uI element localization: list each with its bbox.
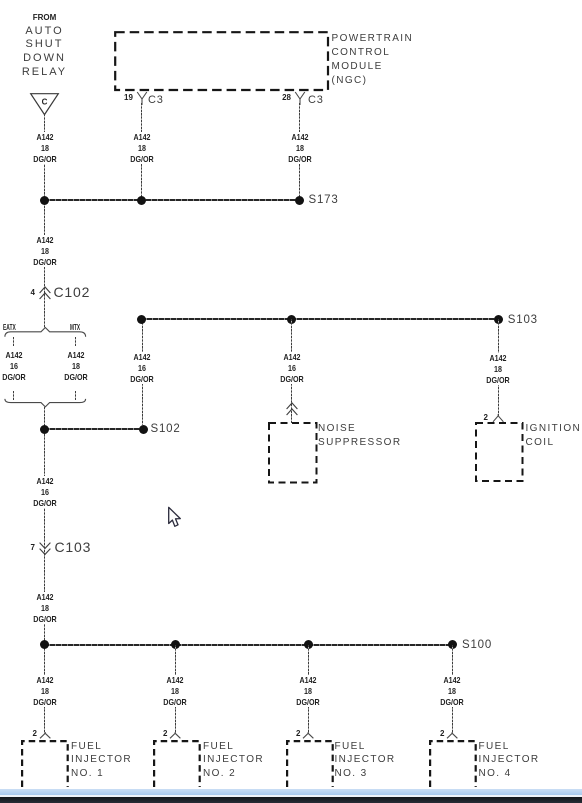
fuel injector no.2 dashed box (open bottom): [153, 740, 201, 787]
junction dot S102 col1: [40, 425, 49, 434]
fuel injector no.3 dashed box (open bottom): [286, 740, 334, 787]
wire col2: pin19 to S173: [141, 103, 142, 200]
pin 2 injector2: [160, 730, 168, 738]
connector C3 pin 28 Y symbol: [294, 91, 306, 105]
connector pin symbol injector1: [39, 732, 52, 740]
window chrome light line: [0, 795, 582, 797]
junction dot S102 col2: [139, 425, 148, 434]
wire MTX branch stub bottom: [75, 391, 76, 400]
pin 2 injector3: [293, 730, 301, 738]
node EATX label: [3, 322, 16, 332]
wire col5: S103 to ignition coil: [498, 319, 499, 416]
junction dot S100 col2: [171, 640, 180, 649]
node S173 label: [309, 194, 339, 206]
wire injector4 drop: [452, 645, 453, 734]
connector pin symbol ignition coil: [492, 414, 505, 423]
splice S102 wire: [44, 428, 144, 430]
pin 19: [124, 94, 132, 102]
wire label A142 18 DG/OR injector1: [21, 675, 68, 707]
node FUEL INJECTOR NO.4 label: [479, 740, 540, 782]
wire col3b: S103 to noise suppressor: [291, 319, 292, 424]
wire label A142 16 DG/OR noise suppressor: [268, 352, 315, 384]
junction dot S100 col1: [40, 640, 49, 649]
wire EATX branch stub bottom: [13, 391, 14, 400]
ignition coil dashed box: [475, 422, 524, 482]
wire EATX branch stub top: [13, 337, 14, 346]
window chrome dark bar: [0, 797, 582, 803]
junction dot S173 col2: [137, 196, 146, 205]
fuel injector no.1 dashed box (open bottom): [21, 740, 69, 787]
splice S173 wire: [44, 199, 300, 201]
svg-text:C: C: [42, 98, 48, 107]
node S103 label: [508, 314, 538, 326]
wire injector2 drop: [175, 645, 176, 734]
window chrome blue bar: [0, 789, 582, 795]
node NOISE SUPPRESSOR label: [318, 422, 401, 450]
wire col2b: S103 to S102: [142, 319, 143, 426]
connector chevrons noise suppressor: [286, 402, 298, 416]
junction dot S173 col1: [40, 196, 49, 205]
node FUEL INJECTOR NO.2 label: [203, 740, 264, 782]
connector C3 pin 19 Y symbol: [136, 91, 148, 105]
wire label A142 18 DG/OR col2 top: [118, 132, 165, 164]
wire col3: pin28 to S173: [299, 103, 300, 200]
wire label A142 18 DG/OR MTX: [52, 350, 99, 382]
node MTX label: [70, 322, 80, 332]
connector C102 chevrons: [39, 286, 51, 300]
connector triangle C (from ASD relay): [30, 93, 59, 116]
node FUEL INJECTOR NO.3 label: [335, 740, 396, 782]
brace split top: [1, 326, 91, 338]
wire label A142 18 DG/OR col1 top: [21, 132, 68, 164]
node FUEL INJECTOR NO.1 label: [71, 740, 132, 782]
node FROM AUTO SHUT DOWN RELAY label: [14, 13, 75, 22]
junction dot S100 col4: [448, 640, 457, 649]
node S100 label: [462, 639, 492, 651]
wire label A142 16 DG/OR col1 (S102-C103): [21, 476, 68, 508]
connector pin symbol injector3: [302, 732, 315, 740]
pin 28: [281, 94, 291, 102]
pin 7: [27, 544, 35, 552]
connector C103 chevrons: [39, 542, 51, 555]
wire col1: bottom brace tip to injector1 (through S102, C103, S100): [44, 407, 45, 734]
splice S103 wire: [141, 318, 499, 320]
wire label A142 16 DG/OR col2 (S103-S102): [118, 352, 165, 384]
wire label A142 18 DG/OR col3 top: [276, 132, 323, 164]
junction dot S103 col2: [137, 315, 146, 324]
pin 4: [27, 289, 35, 297]
node S102 label: [151, 423, 181, 435]
mouse cursor: [167, 506, 183, 529]
wire label A142 18 DG/OR col1 (C103-S100): [21, 592, 68, 624]
pin 2 ignition coil: [480, 414, 488, 422]
wire label A142 18 DG/OR injector4: [428, 675, 475, 707]
wire label A142 16 DG/OR EATX: [0, 350, 37, 382]
connector pin symbol injector4: [446, 732, 459, 740]
junction dot S100 col3: [304, 640, 313, 649]
junction dot S103 col5: [494, 315, 503, 324]
wire label A142 18 DG/OR injector2: [151, 675, 198, 707]
wire label A142 18 DG/OR ignition coil: [474, 353, 521, 385]
junction dot S103 col3: [287, 315, 296, 324]
wire injector3 drop: [308, 645, 309, 734]
brace merge bottom: [1, 398, 91, 409]
wire label A142 18 DG/OR col1 mid: [21, 235, 68, 267]
pin 2 injector1: [29, 730, 37, 738]
connector pin symbol injector2: [169, 732, 182, 740]
wire label A142 18 DG/OR injector3: [284, 675, 331, 707]
splice S100 wire: [44, 644, 453, 646]
junction dot S173 col3: [295, 196, 304, 205]
node IGNITION COIL label: [526, 422, 582, 450]
fuel injector no.4 dashed box (open bottom): [429, 740, 477, 787]
wire col1: triangle to top brace (through S173, C102): [44, 114, 45, 328]
node POWERTRAIN CONTROL MODULE (NGC) label: [332, 32, 414, 88]
wire MTX branch stub top: [75, 337, 76, 346]
noise suppressor dashed box: [268, 422, 318, 484]
powertrain control module dashed box: [114, 31, 330, 92]
pin 2 injector4: [437, 730, 445, 738]
